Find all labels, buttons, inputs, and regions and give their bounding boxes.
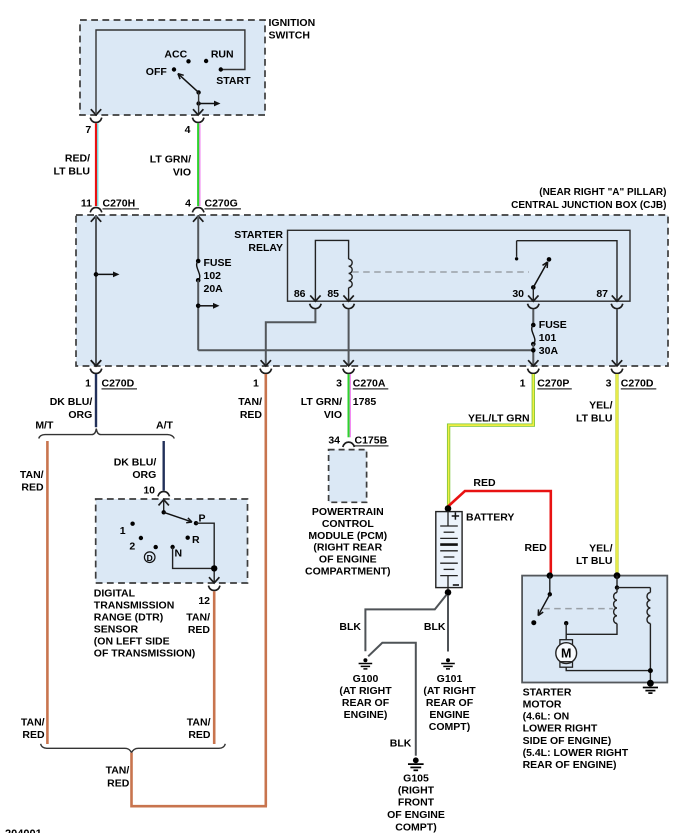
svg-text:1: 1 [120,525,126,537]
svg-text:3: 3 [336,378,342,390]
svg-text:85: 85 [327,288,339,300]
svg-text:C270G: C270G [205,198,238,210]
svg-text:VIO: VIO [173,167,191,179]
svg-text:LT GRN/: LT GRN/ [301,396,342,408]
svg-text:7: 7 [85,124,91,136]
svg-text:TAN/: TAN/ [187,717,211,729]
svg-text:R: R [192,534,200,546]
svg-text:RANGE (DTR): RANGE (DTR) [94,612,163,624]
svg-text:C270P: C270P [537,378,569,390]
svg-text:87: 87 [596,288,608,300]
svg-text:DK BLU/: DK BLU/ [114,457,157,469]
svg-text:SIDE OF ENGINE): SIDE OF ENGINE) [523,735,612,747]
svg-text:DIGITAL: DIGITAL [94,588,136,600]
svg-text:20A: 20A [204,283,224,295]
svg-text:(AT RIGHT: (AT RIGHT [339,685,392,697]
svg-text:BLK: BLK [339,621,361,633]
svg-text:TAN/: TAN/ [106,765,130,777]
svg-text:RUN: RUN [211,49,234,61]
svg-text:ACC: ACC [164,48,187,60]
svg-text:BLK: BLK [424,621,446,633]
svg-text:12: 12 [198,595,210,607]
svg-text:11: 11 [81,198,92,210]
svg-text:CENTRAL JUNCTION BOX (CJB): CENTRAL JUNCTION BOX (CJB) [511,200,666,211]
svg-text:102: 102 [204,270,222,282]
svg-text:1: 1 [253,378,259,390]
svg-text:CONTROL: CONTROL [322,518,374,530]
svg-text:COMPT): COMPT) [429,721,470,733]
svg-text:LT GRN/: LT GRN/ [150,154,191,166]
svg-text:POWERTRAIN: POWERTRAIN [312,506,384,518]
svg-text:204001: 204001 [5,828,42,833]
svg-text:SENSOR: SENSOR [94,624,139,636]
svg-text:34: 34 [328,435,340,447]
svg-text:RED: RED [188,729,211,741]
svg-text:OFF: OFF [146,66,168,78]
svg-text:C270D: C270D [621,378,654,390]
svg-text:DK BLU/: DK BLU/ [50,396,93,408]
svg-text:RED/: RED/ [65,153,90,165]
svg-text:TAN/: TAN/ [20,469,44,481]
svg-text:ORG: ORG [132,469,156,481]
svg-text:ENGINE): ENGINE) [344,709,388,721]
svg-text:(4.6L: ON: (4.6L: ON [523,711,570,723]
svg-text:(RIGHT REAR: (RIGHT REAR [313,542,382,554]
svg-text:ENGINE: ENGINE [429,709,469,721]
svg-text:C270H: C270H [103,198,136,210]
svg-text:TAN/: TAN/ [186,612,210,624]
svg-text:YEL/LT GRN: YEL/LT GRN [468,413,530,425]
svg-text:TAN/: TAN/ [238,396,262,408]
svg-text:LOWER RIGHT: LOWER RIGHT [523,723,598,735]
svg-text:RED: RED [107,778,130,790]
svg-text:FRONT: FRONT [398,797,435,809]
svg-text:(5.4L: LOWER RIGHT: (5.4L: LOWER RIGHT [523,747,629,759]
svg-text:RED: RED [21,481,44,493]
svg-text:FUSE: FUSE [539,319,567,331]
svg-text:30A: 30A [539,345,559,357]
svg-text:4: 4 [185,198,191,210]
svg-text:LT BLU: LT BLU [576,413,613,425]
svg-text:OF ENGINE: OF ENGINE [319,554,377,566]
svg-text:N: N [175,548,183,560]
svg-text:1: 1 [85,378,91,390]
svg-text:REAR OF: REAR OF [426,697,474,709]
svg-text:LT BLU: LT BLU [576,555,613,567]
svg-text:3: 3 [606,378,612,390]
svg-text:(ON LEFT SIDE: (ON LEFT SIDE [94,636,170,648]
svg-text:COMPT): COMPT) [395,822,436,833]
svg-text:RED: RED [22,729,45,741]
svg-text:RED: RED [240,409,263,421]
svg-text:C270A: C270A [353,378,386,390]
svg-text:2: 2 [129,541,135,553]
svg-text:VIO: VIO [324,409,342,421]
svg-text:101: 101 [539,332,557,344]
svg-text:G100: G100 [353,673,379,685]
svg-text:FUSE: FUSE [204,257,232,269]
svg-text:YEL/: YEL/ [589,400,612,412]
svg-text:D: D [147,553,153,563]
svg-text:STARTER: STARTER [523,687,572,699]
svg-text:TAN/: TAN/ [21,717,45,729]
svg-text:(RIGHT: (RIGHT [398,785,435,797]
svg-text:M: M [561,647,571,661]
svg-text:86: 86 [294,288,306,300]
svg-text:LT BLU: LT BLU [53,166,90,178]
svg-text:1: 1 [520,378,526,390]
svg-text:OF TRANSMISSION): OF TRANSMISSION) [94,648,196,660]
svg-text:C175B: C175B [355,435,388,447]
svg-text:RED: RED [188,624,211,636]
svg-text:C270D: C270D [102,378,135,390]
svg-text:COMPARTMENT): COMPARTMENT) [305,566,391,578]
svg-text:RED: RED [473,477,496,489]
svg-text:MOTOR: MOTOR [523,699,562,711]
svg-text:IGNITION: IGNITION [269,17,316,29]
svg-text:REAR OF ENGINE): REAR OF ENGINE) [523,759,617,771]
svg-text:REAR OF: REAR OF [342,697,390,709]
svg-text:STARTER: STARTER [234,229,283,241]
svg-text:ORG: ORG [68,409,92,421]
svg-text:TRANSMISSION: TRANSMISSION [94,600,175,612]
svg-text:A/T: A/T [156,420,174,432]
svg-text:G101: G101 [437,673,463,685]
svg-text:G105: G105 [403,773,429,785]
svg-text:YEL/: YEL/ [589,543,612,555]
svg-text:RELAY: RELAY [248,242,283,254]
svg-text:(AT RIGHT: (AT RIGHT [423,685,476,697]
svg-text:START: START [216,75,251,87]
svg-text:OF ENGINE: OF ENGINE [387,809,445,821]
svg-text:RED: RED [525,542,548,554]
svg-text:10: 10 [143,484,155,496]
svg-text:1785: 1785 [353,396,377,408]
svg-text:30: 30 [512,288,524,300]
svg-text:BLK: BLK [390,738,412,750]
svg-text:SWITCH: SWITCH [269,30,310,42]
svg-text:MODULE (PCM): MODULE (PCM) [308,530,387,542]
svg-text:BATTERY: BATTERY [466,512,514,524]
svg-text:4: 4 [185,124,191,136]
svg-text:M/T: M/T [35,420,54,432]
svg-text:(NEAR RIGHT "A" PILLAR): (NEAR RIGHT "A" PILLAR) [539,187,666,198]
